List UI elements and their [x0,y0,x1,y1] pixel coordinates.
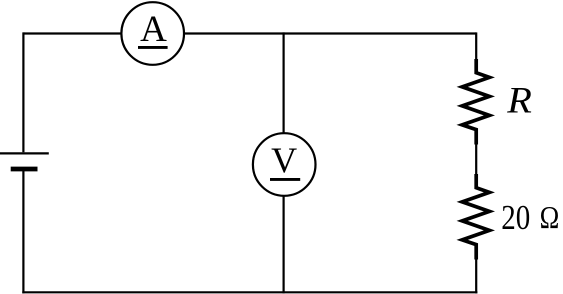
wire right upper (top-right corner to resistor R) [475,32,477,60]
wire right lower (20 ohm resistor to bottom-right corner) [475,259,477,294]
resistor R (zigzag) [462,59,489,145]
svg-text:V: V [271,140,297,180]
svg-text:R: R [506,81,532,121]
wire middle branch lower (voltmeter to bottom wire) [283,195,285,293]
wire bottom [22,291,477,293]
ammeter U1 circle [121,2,184,65]
svg-text:Ω: Ω [540,201,560,236]
voltmeter underline [270,178,300,181]
battery B1 long plate (+) [0,152,49,154]
resistor 20 ohm (zigzag) [462,174,489,260]
svg-text:A: A [140,9,167,50]
wire right middle (between resistors) [475,144,477,176]
ammeter underline [138,46,168,49]
wire middle branch upper (top wire to voltmeter) [283,32,285,134]
wire left (top-left corner down to battery) [22,32,24,152]
voltmeter U2 circle [253,133,316,196]
wire top (left node to right node) [23,32,476,34]
wire left lower (battery to bottom-left corner) [22,169,24,293]
svg-text:20: 20 [501,199,530,237]
battery B1 short plate (-) [11,167,38,172]
